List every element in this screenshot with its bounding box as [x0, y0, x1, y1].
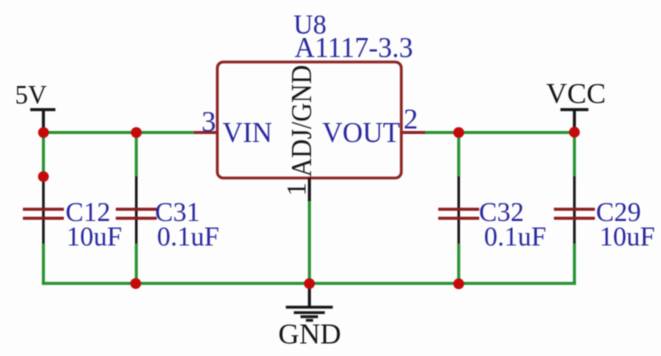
- wire: bottom ground rail: [42, 282, 576, 285]
- junction: C31 bottom: [130, 278, 141, 289]
- ground symbol: [286, 283, 333, 320]
- label C32: [479, 197, 546, 252]
- power port VCC: [546, 78, 606, 133]
- svg-text:0.1uF: 0.1uF: [157, 222, 219, 252]
- wire: C12 column vertical: [42, 131, 45, 285]
- pin name ADJ/GND: [287, 65, 318, 177]
- pin 3 (VIN) stub: [194, 131, 217, 134]
- wire: C31 column vertical: [135, 133, 138, 284]
- designator U8: [294, 9, 327, 39]
- junction: C32 top: [453, 127, 464, 138]
- svg-text:0.1uF: 0.1uF: [484, 222, 546, 252]
- regulator U8 body: [217, 62, 401, 178]
- pin 1 (ADJ/GND) stub: [308, 178, 311, 201]
- junction: C31 top: [131, 127, 142, 138]
- junction: C32 bottom: [453, 278, 464, 289]
- wire: 5V top rail to pin 3: [44, 131, 195, 134]
- capacitor C32: [438, 177, 479, 244]
- label C31: [155, 197, 219, 252]
- label C29: [596, 197, 655, 252]
- svg-text:A1117-3.3: A1117-3.3: [295, 33, 413, 64]
- junction: VCC rail: [569, 127, 580, 138]
- pin 2 (VOUT) stub: [401, 131, 425, 134]
- wire: pin 1 to ground rail: [308, 200, 311, 283]
- capacitor C29: [554, 177, 595, 244]
- svg-text:5V: 5V: [15, 81, 47, 110]
- svg-text:1: 1: [282, 183, 312, 197]
- pin name VOUT: [322, 118, 400, 149]
- svg-text:2: 2: [404, 104, 419, 136]
- capacitor C31: [116, 177, 157, 244]
- value A1117-3.3: [295, 33, 413, 64]
- net label GND: [278, 318, 341, 350]
- svg-text:10uF: 10uF: [600, 222, 656, 252]
- label C12: [66, 197, 123, 252]
- svg-text:VCC: VCC: [546, 78, 606, 110]
- wire: C29 column vertical: [573, 133, 576, 285]
- pin number 3: [202, 106, 217, 138]
- svg-text:VOUT: VOUT: [322, 118, 400, 149]
- power port 5V: [15, 81, 55, 133]
- pin name VIN: [223, 118, 273, 149]
- capacitor C12: [23, 177, 64, 244]
- wire: C32 column vertical: [457, 133, 460, 284]
- wire: pin 2 to VCC rail: [425, 131, 574, 134]
- pin number 1: [282, 183, 312, 197]
- svg-text:10uF: 10uF: [67, 222, 123, 252]
- svg-text:VIN: VIN: [223, 118, 273, 149]
- junction: 5V rail: [38, 127, 49, 138]
- junction: ground stem: [304, 278, 315, 289]
- svg-text:3: 3: [202, 106, 217, 138]
- svg-text:ADJ/GND: ADJ/GND: [287, 65, 318, 177]
- svg-text:GND: GND: [278, 318, 341, 350]
- pin number 2: [404, 104, 419, 136]
- junction: above C12: [38, 171, 49, 182]
